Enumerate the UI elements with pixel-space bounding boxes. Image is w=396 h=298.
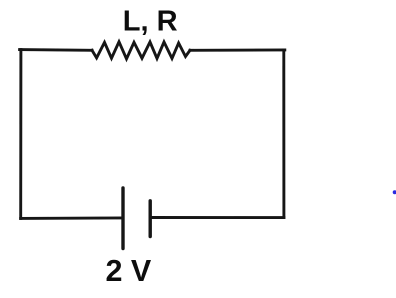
wire bottom-right segment bbox=[151, 216, 284, 219]
wire left vertical bbox=[19, 50, 22, 219]
battery cell 2V long plate bbox=[121, 188, 124, 249]
resistor L,R zigzag bbox=[92, 42, 190, 59]
battery cell 2V short plate bbox=[148, 201, 151, 237]
svg-text:L, R: L, R bbox=[123, 5, 178, 37]
blue ink speck bbox=[393, 190, 396, 194]
wire top-left segment bbox=[20, 48, 92, 52]
wire bottom-left segment bbox=[21, 216, 122, 219]
wire right vertical bbox=[282, 50, 285, 218]
wire top-right segment bbox=[190, 48, 285, 51]
svg-text:2 V: 2 V bbox=[106, 254, 152, 288]
